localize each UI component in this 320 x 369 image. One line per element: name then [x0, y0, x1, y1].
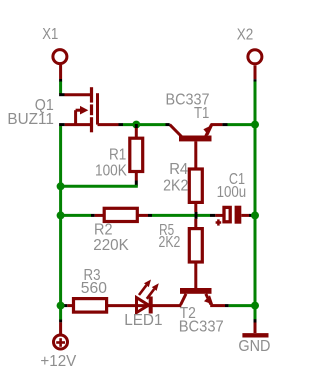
pin end supply +12V [59, 320, 62, 323]
junction right rail top [251, 121, 259, 129]
resistor R4 [189, 169, 202, 212]
junction right rail C1 line [251, 211, 259, 219]
svg-text:X1: X1 [42, 26, 58, 43]
svg-text:560: 560 [81, 280, 107, 297]
svg-text:T1: T1 [194, 105, 209, 122]
pin end R3 left [63, 304, 67, 307]
svg-text:BUZ11: BUZ11 [7, 111, 54, 128]
svg-text:100K: 100K [95, 162, 127, 179]
transistor T2 BC337 [180, 288, 225, 306]
svg-text:LED1: LED1 [124, 312, 162, 329]
svg-text:R1: R1 [109, 147, 126, 164]
svg-text:+12V: +12V [40, 353, 76, 369]
LED LED1 [135, 280, 181, 314]
svg-text:220K: 220K [93, 237, 129, 254]
pin end T1 collector [166, 123, 170, 126]
pin end R1 bottom [135, 181, 138, 187]
wire R2 to R4 R5 to C1 [152, 214, 210, 217]
capacitor C1 [215, 206, 249, 226]
junction left rail R1 line [57, 182, 65, 190]
wire T2 emitter to rail [229, 304, 255, 307]
pin end R1 top [135, 124, 138, 128]
junction gate node [132, 121, 140, 129]
wire left rail [59, 126, 62, 320]
resistor R3 [67, 299, 135, 313]
wire X1 to Q1 drain [59, 82, 62, 95]
pin end T1 emitter [222, 123, 227, 126]
pin end GND [254, 319, 257, 322]
wire X2 down right rail [254, 82, 257, 321]
pin end R2 left [91, 214, 95, 217]
pin end C1 left [210, 214, 215, 217]
pin end R4 bottom R5 top [195, 212, 198, 219]
wire R1 bottom to left rail [61, 185, 138, 188]
svg-text:BC337: BC337 [179, 319, 224, 336]
junction left rail R3 line [57, 302, 65, 310]
resistor R2 [95, 208, 148, 221]
svg-text:R4: R4 [169, 161, 188, 178]
junction left rail R2 line [57, 211, 65, 219]
transistor Q1 BUZ11 [65, 87, 119, 132]
svg-text:2K2: 2K2 [159, 234, 181, 251]
svg-text:R2: R2 [94, 221, 113, 238]
pin end X2 [254, 79, 257, 82]
junction right rail GND line [251, 302, 259, 310]
resistor R1 [130, 128, 143, 181]
transistor T1 BC337 [170, 124, 223, 169]
pin end T2 emitter [225, 304, 229, 307]
svg-text:X2: X2 [237, 26, 254, 43]
resistor R5 [189, 219, 202, 288]
pin end R2 right [148, 214, 152, 217]
wire T1 emitter to rail [228, 123, 256, 126]
svg-text:2K2: 2K2 [163, 177, 188, 194]
ground GND [242, 323, 268, 336]
terminal X2 [248, 50, 262, 79]
pin end Q1 source corner [59, 123, 65, 126]
pin end X1 [59, 79, 62, 82]
svg-text:100u: 100u [217, 184, 247, 201]
pin end Q1 drain corner [59, 93, 64, 96]
pin end C1 right [249, 214, 255, 217]
svg-text:GND: GND [238, 338, 270, 355]
wire left rail to R2 [61, 214, 91, 217]
pin end Q1 gate [119, 123, 124, 126]
terminal X1 [53, 50, 67, 79]
supply +12V [54, 322, 68, 349]
wire gate node [123, 123, 166, 126]
